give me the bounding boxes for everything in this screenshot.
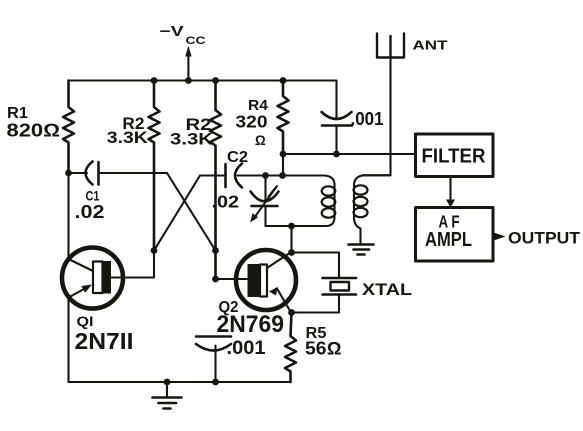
box FILTER <box>416 134 494 177</box>
label Q1 2N711 <box>75 313 134 354</box>
svg-text:2N769: 2N769 <box>217 311 285 338</box>
wire Q1 left branch <box>67 173 69 382</box>
label C2 .02 <box>212 149 249 212</box>
ground (bottom) <box>153 382 182 409</box>
label R4 320ohm <box>236 97 269 148</box>
wire R4 junction drop <box>282 154 284 176</box>
svg-text:.001: .001 <box>351 108 384 129</box>
box AF AMPL <box>416 208 494 262</box>
wire bottom rail <box>69 381 291 383</box>
svg-text:AMPL: AMPL <box>425 229 472 251</box>
label R1 820ohm <box>7 105 60 141</box>
svg-text:.02: .02 <box>212 192 240 212</box>
svg-text:QI: QI <box>77 313 94 329</box>
wire to filter <box>283 153 416 155</box>
label -Vcc <box>160 24 206 47</box>
svg-text:320: 320 <box>236 112 268 132</box>
label R5 56ohm <box>305 325 342 359</box>
arrow output <box>493 233 506 240</box>
resistor R2 (first) <box>149 81 160 251</box>
svg-text:.02: .02 <box>75 202 105 222</box>
capacitor .001 (top) <box>322 112 353 154</box>
transistor Q2 <box>236 250 296 313</box>
svg-text:FILTER: FILTER <box>422 146 487 168</box>
label C1 .02 <box>75 189 105 223</box>
svg-text:Ω: Ω <box>255 132 266 148</box>
label R2 3.3K (second) <box>170 115 213 149</box>
resistor R2 (second) <box>210 81 221 280</box>
variable capacitor <box>250 176 278 227</box>
supply arrow -Vcc <box>185 46 191 81</box>
label R2 3.3K (first) <box>107 114 148 147</box>
arrow filter to af ampl <box>446 177 455 208</box>
inductor L2 (right coil) <box>354 175 391 243</box>
inductor L1 (left coil) <box>266 176 336 227</box>
svg-text:ANT: ANT <box>413 39 448 53</box>
crystal XTAL <box>292 253 357 313</box>
wire cross-coupling diagonal A <box>167 173 216 251</box>
wire Q2 base tee <box>216 278 249 280</box>
capacitor .001 (bottom) <box>196 337 231 383</box>
wire top supply rail <box>69 81 337 119</box>
capacitor C2 <box>200 164 324 188</box>
svg-text:2N7II: 2N7II <box>75 328 134 354</box>
svg-text:XTAL: XTAL <box>362 280 412 299</box>
svg-text:3.3K: 3.3K <box>107 129 148 147</box>
svg-text:3.3K: 3.3K <box>170 131 213 149</box>
label Q2 2N769 <box>217 299 285 338</box>
svg-text:56Ω: 56Ω <box>305 339 342 359</box>
svg-text:C2: C2 <box>227 149 248 166</box>
resistor R1 <box>63 81 74 174</box>
wire tank to Q2 collector <box>290 226 292 253</box>
transistor Q1 <box>62 248 154 309</box>
svg-text:820Ω: 820Ω <box>7 120 60 141</box>
svg-text:−V: −V <box>160 24 184 40</box>
svg-text:OUTPUT: OUTPUT <box>508 228 581 247</box>
wire cross-coupling diagonal B <box>154 176 200 251</box>
svg-text:.001: .001 <box>227 338 266 359</box>
capacitor C1 <box>69 162 168 185</box>
svg-text:CC: CC <box>186 35 206 47</box>
ground (right coil) <box>349 245 374 255</box>
antenna ANT <box>362 34 404 176</box>
resistor R5 <box>285 313 296 383</box>
resistor R4 <box>278 81 289 155</box>
